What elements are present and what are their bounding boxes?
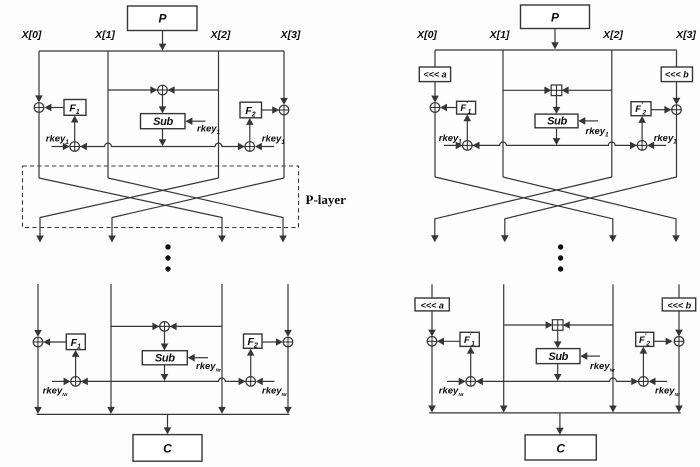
xor C1 (branch y0, right top) [430,103,440,113]
wire xor B2 to Sub bottom [164,331,166,344]
wire xor E3 up to F1p bottom [470,353,472,377]
wire branch y3 bottom lower right [678,346,680,406]
box Sub (S-box layer, right bottom) [536,349,580,364]
arrowhead perm right pos3 [672,235,680,242]
arrowhead right into modadd D2 [563,321,570,329]
arrowhead F2p into xor E5 [666,338,673,346]
svg-text:X[2]: X[2] [602,29,623,41]
wire branch x3 bottom upper [287,284,289,333]
box Sub (S-box layer, left top) [141,114,186,129]
arrowhead rkey into xor E4 [649,378,656,386]
arrowhead key row into xor C3 [473,142,480,150]
wire key distribution row left top (hops over x1 x2) [80,143,245,146]
wire rkeyNr into xor B3 [52,380,64,382]
wire branch x1 bottom vertical [110,284,112,408]
permutation wire right branch3 to pos1 [505,177,677,236]
svg-text:X[1]: X[1] [489,29,510,41]
top horizontal bus left diagram [39,50,284,52]
wire P to top bus [162,31,164,45]
arrowhead into F2p bottom right [640,347,648,354]
svg-text:X[3]: X[3] [280,29,301,41]
modular add D1 (boxed plus, right top) [551,85,562,96]
wire branch y3 bottom to rot b2 [678,284,680,298]
arrowhead into Sub box [159,106,167,113]
arrowhead branch y3 onto merge bus right [675,406,683,413]
svg-text:X[3]: X[3] [675,29,696,41]
wire branch y0 lower right [434,112,436,177]
wire P to top bus right [554,29,556,43]
arrowhead key row into xor A3 [80,143,87,151]
merge bus left diagram [37,413,290,415]
arrowhead Sub output onto key row right bottom [554,374,562,381]
svg-text:C: C [163,441,172,455]
wire F2 to xor B5 [262,341,277,343]
svg-text:Sub: Sub [548,351,568,363]
wire branch x0 bottom upper [37,284,39,333]
arrowhead into F1p bottom right [467,347,475,354]
xor E4 (key add right, right bottom) [639,377,649,387]
wire F2p to xor E5 [654,340,667,342]
arrowhead into xor A5 [280,98,288,105]
permutation wire branch0 to pos2 [39,178,222,236]
wire rkeyNr into Sub bottom [194,357,208,359]
arrowhead F1 into xor A1 [44,104,51,112]
wire key distribution row right top (hops over y1 y2) [473,142,637,145]
wire branch x3 upper [283,51,285,99]
wire branch x3 bottom lower [287,347,289,408]
box F2 (round function, left top) [240,102,262,118]
wire modadd D2 to Sub bottom [557,330,559,342]
arrowhead into C box [164,427,172,434]
wire modadd feed row right bottom [504,324,613,326]
arrowhead rkey into xor B4 [256,378,263,386]
dashed box P-layer [23,166,299,228]
svg-text:P-layer: P-layer [306,192,347,207]
arrowhead rkey into xor C4 [647,142,654,150]
wire Sub output down bottom [164,365,166,375]
arrowhead perm right pos0 [431,235,439,242]
arrowhead key row into xor E3 [476,378,483,386]
arrowhead key row into xor B4 [239,378,246,386]
arrowhead rkey into Sub [185,117,192,125]
svg-text:X[2]: X[2] [210,29,231,41]
modular add D2 (boxed plus, right bottom) [552,320,563,331]
arrowhead branch y0 onto merge bus right [428,406,436,413]
arrowhead Sub output onto key row bottom [161,374,169,381]
wire xor feed row y90 [108,89,219,91]
arrowhead left into modadd D2 [546,321,553,329]
wire rkey1 into xor C3 [444,144,456,146]
merge bus right diagram [429,412,681,414]
wire branch x2 vertical [218,51,220,178]
svg-text:Sub: Sub [155,353,175,365]
wire branch y0 bottom lower right [431,346,433,406]
arrowhead Sub output onto key row right top [553,138,561,145]
wire Sub output down [162,129,164,140]
wire F1p to xor E1 bottom [443,340,460,342]
permutation wire right branch0 to pos2 [435,177,613,236]
wire branch y1 vertical right [502,50,504,177]
svg-text:<<< a: <<< a [423,70,446,80]
wire modadd D1 to Sub [556,96,558,108]
svg-text:X[0]: X[0] [416,29,437,41]
wire xor B3 up to F1 bottom [75,356,77,377]
permutation wire branch1 to pos3 [108,178,283,236]
wire branch x2 bottom vertical [221,284,223,408]
arrowhead right into xor A2 [168,86,175,94]
wire F2 to xor A5 [262,109,273,111]
arrowhead rkey into xor E3 [459,378,466,386]
svg-text:Sub: Sub [547,116,567,128]
wire branch y1 bottom vertical [503,284,505,406]
box F2 prime (round function, right bottom) [636,332,654,346]
arrowhead F1 into xor B1 [43,338,50,346]
arrowhead perm pos1 [108,236,116,243]
permutation wire right branch1 to pos3 [503,177,676,236]
wire branch y3 lower right [676,115,678,177]
arrowhead right into modadd D1 [562,87,569,95]
wire rkeyNr into xor E3 [447,380,459,382]
box C (ciphertext output, right diagram) [525,435,596,460]
arrowhead branch x2 onto merge bus [218,407,226,414]
arrowhead rkey into Sub right top [578,117,585,125]
top horizontal bus right diagram [435,49,677,51]
arrowhead key row into xor A4 [238,143,245,151]
wire xor A4 up to F2 [249,124,251,142]
svg-text:Sub: Sub [153,116,173,128]
wire rot a to xor C1 [434,82,436,97]
wire key distribution row left bottom (hop over x2) [81,378,246,381]
svg-text:X[1]: X[1] [94,29,115,41]
arrowhead rkey into xor C3 [456,142,463,150]
svg-text:P: P [158,12,167,26]
box F1 (round function, left top) [64,100,86,116]
arrowhead into xor C5 [673,98,681,105]
arrowhead left into xor B2 [152,323,159,331]
wire merge bus to C right [559,413,561,429]
xor B2 (branch mix, left bottom) [160,322,170,332]
arrowhead key row into xor B3 [81,378,88,386]
xor E5 (branch y3, right bottom) [674,337,684,347]
ellipsis dots left diagram [165,244,170,249]
arrowhead perm right pos2 [609,235,617,242]
arrowhead branch x3 onto merge bus [284,407,292,414]
wire xor C4 up to F2p [641,122,643,140]
wire rkey1 into Sub right top [585,120,599,122]
arrowhead branch y2 onto merge bus right [609,406,617,413]
arrowhead left into modadd D1 [544,87,551,95]
wire rkeyNr into xor E4 [655,380,668,382]
xor B5 (branch x3, left bottom) [283,337,293,347]
svg-text:P: P [551,10,560,24]
arrowhead into xor B1 [34,330,42,337]
arrowhead F2p into xor C5 [664,106,671,114]
xor C4 (key add right, right top) [637,141,647,151]
arrowhead right into xor B2 [170,323,177,331]
xor A4 (key add right, left top) [245,142,255,152]
box F2 (round function, left bottom) [244,334,263,348]
ellipsis dots right diagram [558,244,563,249]
wire branch x0 upper [38,51,40,96]
wire branch x0 bottom lower [37,347,39,408]
arrowhead rkey into xor B3 [64,378,71,386]
arrowhead into F1p bottom [464,114,472,121]
arrowhead rkey into xor A4 [255,143,262,151]
arrowhead rkey into xor A3 [63,143,70,151]
arrowhead rkey into Sub right bottom [580,352,587,360]
arrowhead perm right pos1 [501,235,509,242]
arrowhead into F2 bottom section [247,349,255,356]
arrowhead into F1 bottom section [72,350,80,357]
wire rkeyNr into Sub right bottom [587,355,601,357]
arrowhead branch x0 onto merge bus [34,407,42,414]
xor E3 (key add left, right bottom) [466,377,476,387]
wire F1 to xor B1 [50,341,67,343]
arrowhead into xor C1 [431,96,439,103]
arrowhead into Sub right top [553,107,561,114]
arrowhead F1p into xor C1 [440,104,447,112]
svg-text:X[0]: X[0] [21,29,42,41]
arrowhead P into top bus right [551,42,559,49]
wire key distribution row right bottom (hop over y2) [476,378,638,381]
xor B3 (key add left, left bottom) [71,377,81,387]
box P (plaintext input, right diagram) [521,5,590,29]
wire rot a2 to xor E1 [431,311,433,331]
wire branch x3 lower [283,115,285,178]
xor E1 (branch y0, right bottom) [427,337,437,347]
box F2 prime (round function, right top) [631,102,651,116]
wire rkeyNr into xor B4 [262,380,275,382]
box rotate b (right, right top) [661,67,692,82]
xor A3 (key add left, left top) [70,142,80,152]
svg-text:<<< b: <<< b [665,70,689,80]
wire rkey1 into xor C4 [654,144,667,146]
xor B4 (key add right, left bottom) [246,377,256,387]
box Sub (S-box layer, right top) [535,114,578,128]
xor A2 (branch mix, left top) [158,85,168,95]
box F1 prime (round function, right top) [457,101,476,114]
wire Sub output down right bottom [557,364,559,375]
xor A5 (branch x3, left top) [279,105,289,115]
arrowhead key row into xor C4 [630,142,637,150]
arrowhead perm pos2 [218,236,226,243]
box F1 prime (round function, right bottom) [460,332,479,346]
wire branch x1 vertical [107,51,109,178]
wire rkey1 into xor A3 [52,146,64,148]
wire F1 to xor A1 [51,107,64,109]
wire merge bus to C [167,414,169,428]
xor C3 (key add left, right top) [463,141,473,151]
box P (plaintext input, left diagram) [128,6,198,31]
arrowhead P into top bus [159,44,167,51]
box Sub (S-box layer, left bottom) [142,351,187,365]
permutation wire branch3 to pos1 [112,178,284,236]
arrowhead into F2 bottom [246,118,254,125]
wire branch y0 bottom to rot a2 [431,284,433,298]
wire rot b2 to xor E5 [678,311,680,331]
wire branch y2 bottom vertical [612,284,614,406]
wire Sub output down right top [556,128,558,139]
wire F2p to xor C5 [651,109,665,111]
arrowhead left into xor A2 [150,86,157,94]
xor A1 (branch x0, left top) [34,103,44,113]
wire branch x0 lower [38,112,40,178]
wire modadd feed row right top [503,89,612,91]
wire rkey1 into xor A4 [261,146,274,148]
permutation wire branch2 to pos0 [40,178,219,236]
svg-text:<<< a: <<< a [421,301,444,311]
arrowhead into Sub right bottom [554,341,562,348]
wire rkey1 into Sub [192,120,206,122]
wire xor A3 up to F1 [74,122,76,142]
box rotate a (left, right bottom) [415,298,449,311]
arrowhead into xor B5 [284,330,292,337]
box C (ciphertext output, left diagram) [133,435,202,462]
arrowhead perm pos3 [279,236,287,243]
wire xor A2 to Sub [162,95,164,108]
permutation wire right branch2 to pos0 [435,177,612,236]
wire rot b to xor C5 [676,82,678,99]
arrowhead branch x1 onto merge bus [107,407,115,414]
wire xor B4 up to F2 bottom [250,355,252,377]
wire F1p to xor C1 [446,107,456,109]
svg-text:C: C [556,442,565,456]
arrowhead branch y1 onto merge bus right [500,406,508,413]
arrowhead into xor E1 [428,330,436,337]
arrowhead into xor A1 [35,95,43,102]
arrowhead into C box right [556,428,564,435]
wire xor E4 up to F2p bottom [642,353,644,377]
arrowhead into Sub box bottom [161,344,169,351]
box rotate a (left, right top) [419,67,450,82]
wire xor C3 up to F1p [466,121,468,141]
xor C5 (branch y3, right top) [672,105,682,115]
arrowhead F2 into xor B5 [276,338,283,346]
arrowhead perm pos0 [36,236,44,243]
arrowhead into xor E5 [675,330,683,337]
arrowhead into F1 bottom [71,116,79,123]
wire branch y0 to rot a [434,50,436,67]
xor B1 (branch x0, left bottom) [33,337,43,347]
arrowhead rkey into Sub bottom [188,354,195,362]
svg-text:<<< b: <<< b [667,301,691,311]
arrowhead Sub output onto key row [159,139,167,146]
arrowhead F2 into xor A5 [272,106,279,114]
wire branch y3 to rot b [676,50,678,67]
wire xor feed row bottom left [111,325,222,327]
box rotate b (right, right bottom) [662,298,695,311]
wire branch y2 vertical right [611,50,613,177]
arrowhead F1p into xor E1 [437,338,444,346]
arrowhead key row into xor E4 [631,378,638,386]
arrowhead into F2p bottom [638,116,646,123]
box F1 (round function, left bottom) [66,334,85,350]
